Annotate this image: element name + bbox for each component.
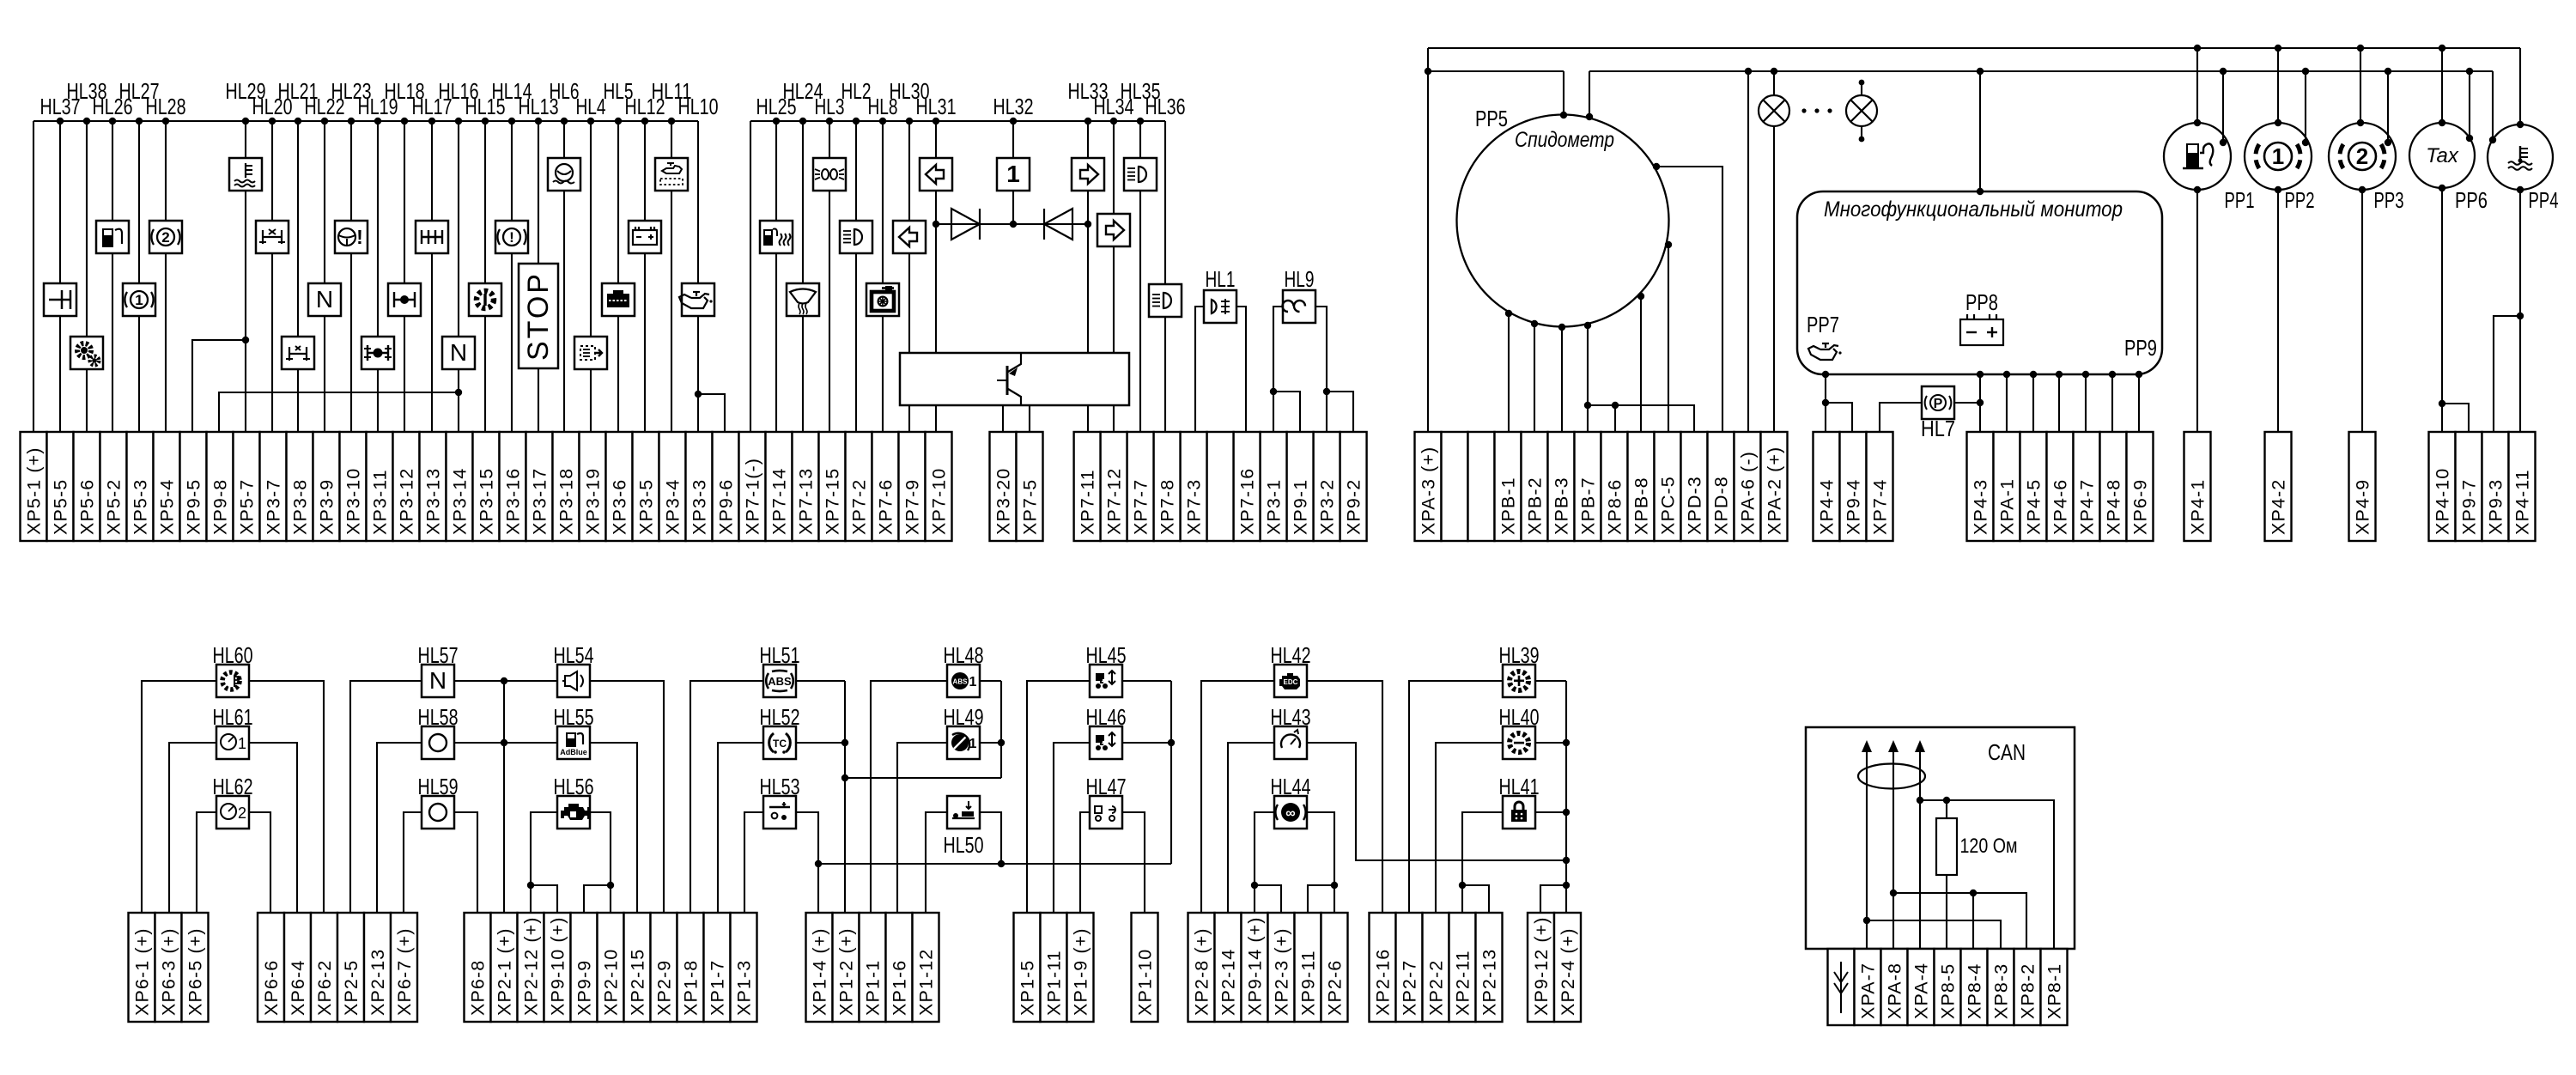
wire: lower bus corner to PP4 (2492, 71, 2494, 140)
indicator lamp HL28 wire (165, 121, 167, 221)
svg-text:XP4-10: XP4-10 (2433, 468, 2453, 535)
wire: upper bus corner to PP4 (2519, 48, 2521, 125)
svg-text:XP9-11: XP9-11 (1298, 950, 1319, 1016)
pin blank box (1207, 432, 1234, 541)
indicator lamp HL30 (turn left) (893, 221, 926, 253)
svg-text:HL53: HL53 (760, 774, 800, 799)
wire: HL54 right lead (590, 681, 664, 913)
wire: HL42 left lead (1201, 681, 1274, 913)
pin XPA-1 box (1994, 432, 2020, 541)
pin XP7-5 box (1017, 432, 1043, 541)
wire: HL45 right lead (1122, 680, 1171, 682)
indicator lamp HL16 wire (458, 121, 459, 337)
pin XP2-11 box (1449, 913, 1476, 1022)
indicator lamp HL36 (low beam) (1149, 284, 1182, 317)
svg-text:XP2-7: XP2-7 (1400, 960, 1420, 1016)
pin XP2-8 (+) box (1188, 913, 1215, 1022)
svg-text:XP3-2: XP3-2 (1317, 479, 1338, 535)
indicator lamp HL33 (turn right) (1072, 158, 1104, 191)
pin XP7-15 box (819, 432, 846, 541)
svg-text:XP3-10: XP3-10 (343, 468, 364, 535)
wire: HL59 left lead (404, 812, 422, 913)
junction on bus at HL12 (641, 118, 648, 125)
indicator lamp HL24 wire (802, 121, 804, 283)
indicator lamp HL55 (557, 726, 590, 759)
wire: HL43 right lead to HL39 rail (1307, 743, 1566, 860)
svg-text:HL54: HL54 (554, 642, 594, 668)
indicator lamp HL36 wire (1164, 121, 1166, 284)
wire: HL51 right lead (796, 680, 845, 682)
junction on bus at HL2 (853, 118, 860, 125)
wire: HL9 right branch to XP9-2 (1327, 392, 1353, 432)
pin XP2-13 box (1476, 913, 1503, 1022)
wire: HL41 right lead (1535, 811, 1566, 813)
pin XP4-4 box (1814, 432, 1840, 541)
svg-text:1: 1 (238, 735, 246, 752)
indicator lamp HL27 (123, 283, 155, 316)
junction on XPB-7 wire (1584, 402, 1591, 409)
svg-text:XP2-15: XP2-15 (628, 949, 648, 1016)
wire: monitor to XP4-6 (2058, 374, 2060, 432)
junction HL53 on common plus rail (815, 860, 822, 867)
svg-text:XP9-2: XP9-2 (1344, 479, 1364, 535)
junction on bus at HL16 (455, 118, 462, 125)
svg-text:HL32: HL32 (993, 94, 1034, 119)
svg-text:HL49: HL49 (944, 704, 984, 730)
svg-text:ABS: ABS (953, 678, 969, 686)
svg-text:PP5: PP5 (1475, 106, 1508, 131)
svg-text:XP1-9 (+): XP1-9 (+) (1071, 927, 1091, 1016)
junction on lower bus at lamp EL1 (1771, 68, 1777, 75)
pin XPA-4 box (1908, 949, 1935, 1025)
junction on bus at HL33 (1084, 118, 1091, 125)
wire: upper bus to PP1 (2196, 48, 2198, 123)
pin XP3-8 box (287, 432, 313, 541)
svg-text:AdBlue: AdBlue (560, 748, 587, 756)
wire: HL9 right to XP3-2 (1315, 307, 1327, 432)
pin XP7-6 box (872, 432, 899, 541)
pin XP4-5 box (2020, 432, 2047, 541)
svg-text:XP7-9: XP7-9 (902, 479, 923, 535)
wire: to pin XPA-6 (-) (1747, 71, 1749, 432)
junction HL50 on plus rail (998, 860, 1005, 867)
pin XP8-4 box (1961, 949, 1988, 1025)
junction CAN high (1917, 797, 1923, 804)
pin XP3-13 box (420, 432, 447, 541)
pin XP3-6 box (606, 432, 633, 541)
pin XP9-2 box (1340, 432, 1367, 541)
indicator lamp HL40 (1503, 726, 1535, 759)
pin XP1-2 (+) box (833, 913, 860, 1022)
svg-text:XP7-5: XP7-5 (1020, 479, 1041, 535)
svg-text:HL41: HL41 (1499, 774, 1540, 799)
pin XP9-14 (+) box (1242, 913, 1268, 1022)
wire: HL53 right lead to XP1-4 (+) (796, 812, 818, 913)
wire: flasher output to XP7-5 (1029, 405, 1030, 432)
junction upper bus at PP2 (2275, 45, 2281, 52)
pin XP3-1 box (1261, 432, 1287, 541)
wire: HL57 left lead (350, 681, 422, 913)
gauge PP1 circle (2164, 123, 2231, 190)
wire: HL9 left branch to XP9-1 (1273, 392, 1300, 432)
svg-text:XP1-5: XP1-5 (1018, 960, 1038, 1016)
wire: upper supply bus (right block) (1428, 47, 2520, 49)
junction on bus at HL19 (374, 118, 381, 125)
pin XP6-4 box (284, 913, 311, 1022)
svg-text:XP6-6: XP6-6 (261, 960, 282, 1016)
svg-text:HL10: HL10 (678, 94, 719, 119)
wire: branch to XP2-3 (+) (1255, 885, 1281, 913)
indicator lamp HL14 (495, 221, 528, 253)
svg-text:XP5-5: XP5-5 (51, 479, 71, 535)
svg-text:STOP: STOP (522, 271, 555, 361)
svg-text:HL60: HL60 (213, 642, 253, 668)
svg-text:XP8-2: XP8-2 (2018, 963, 2038, 1019)
svg-text:XPB-2: XPB-2 (1525, 477, 1546, 535)
wire: PP1 to XP4-1 (2196, 190, 2198, 432)
junction HL56 right branch (607, 882, 614, 889)
pin XP7-12 box (1101, 432, 1127, 541)
svg-text:1: 1 (135, 292, 143, 308)
svg-text:HL4: HL4 (576, 94, 606, 119)
junction on bus at HL31 (933, 118, 939, 125)
svg-text:1: 1 (969, 675, 977, 689)
indicator lamp HL33 wire (1087, 121, 1089, 158)
wire: HL62 left lead (197, 812, 216, 913)
wire: lower bus to PP2 (2305, 71, 2306, 143)
pin XP3-4 box (659, 432, 686, 541)
indicator lamp HL22 wire (324, 121, 325, 283)
wire: HL62 right lead (249, 812, 270, 913)
wire: XP7-4 riser to lamp HL7 (1880, 403, 1922, 432)
indicator lamp HL13 wire (538, 121, 539, 264)
svg-text:XP6-3 (+): XP6-3 (+) (159, 927, 179, 1016)
pin XP3-11 box (367, 432, 393, 541)
indicator lamp HL11 (655, 158, 688, 191)
pin XPB-3 box (1548, 432, 1575, 541)
svg-text:PP1: PP1 (2225, 187, 2255, 213)
svg-text:XP8-3: XP8-3 (1991, 963, 2012, 1019)
pin XP6-2 box (311, 913, 337, 1022)
svg-text:XP4-11: XP4-11 (2512, 469, 2533, 535)
svg-text:HL56: HL56 (554, 774, 594, 799)
wire: HL42 right lead (1307, 681, 1382, 913)
pin XP8-1 box (2041, 949, 2068, 1025)
svg-text:!: ! (356, 226, 363, 248)
svg-text:XPA-2 (+): XPA-2 (+) (1765, 446, 1785, 535)
indicator lamp HL4 (574, 337, 607, 369)
indicator lamp HL1 (rear fog) (1204, 290, 1236, 323)
junction on bus at HL17 (428, 118, 435, 125)
indicator lamp HL18 (388, 283, 421, 316)
svg-text:HL51: HL51 (760, 642, 800, 668)
svg-text:HL61: HL61 (213, 704, 253, 730)
svg-text:XP6-2: XP6-2 (314, 960, 335, 1016)
wire: speedometer to XPD-8 (1656, 167, 1722, 432)
svg-text:XP2-12 (+): XP2-12 (+) (521, 916, 542, 1016)
svg-text:XPA-3 (+): XPA-3 (+) (1419, 446, 1439, 535)
wire: HL44 left lead to XP9-14 (1255, 812, 1274, 913)
svg-text:HL1: HL1 (1206, 266, 1236, 292)
wire: HL50 left lead to XP1-12 (926, 812, 947, 913)
indicator lamp HL6 (548, 158, 580, 191)
wire: monitor to XPA-1 (2006, 374, 2008, 432)
indicator lamp HL11 wire (671, 121, 672, 158)
junction diode row right (1084, 221, 1091, 228)
svg-text:HL52: HL52 (760, 704, 800, 730)
svg-text:XP1-2 (+): XP1-2 (+) (836, 927, 857, 1016)
gauge PP4 circle (2488, 125, 2553, 190)
indicator lamp HL10 (682, 283, 714, 316)
wire: bus drop to pin XP7-1(-) (750, 121, 751, 432)
wire: upper bus to PP3 (2360, 48, 2361, 123)
pin XP5-4 box (154, 432, 180, 541)
indicator lamp HL28 (149, 221, 182, 253)
wire: HL46 right lead (1122, 742, 1171, 744)
junction diode row centre (1010, 221, 1017, 228)
twisted pair ellipse (1858, 764, 1925, 789)
pin XP1-1 box (860, 913, 886, 1022)
pin XP3-20 box (990, 432, 1017, 541)
svg-text:XP3-11: XP3-11 (370, 469, 391, 535)
speedometer PP5 circle (1457, 115, 1669, 327)
svg-text:XP2-13: XP2-13 (368, 949, 388, 1016)
wire: speedometer to XPB-1 (1508, 313, 1510, 432)
junction HL44 right branch (1331, 882, 1338, 889)
indicator lamp HL5 (602, 283, 635, 316)
svg-text:PP3: PP3 (2374, 187, 2404, 213)
indicator lamp HL31 wire (935, 121, 937, 158)
svg-text:HL40: HL40 (1499, 704, 1540, 730)
junction on bus at HL18 (401, 118, 408, 125)
svg-text:XP6-1 (+): XP6-1 (+) (132, 927, 153, 1016)
wire: lower bus left segment (1428, 70, 1564, 72)
pin XP3-10 box (340, 432, 367, 541)
indicator lamp HL43 (1274, 726, 1307, 759)
svg-text:XP9-6: XP9-6 (716, 479, 737, 535)
junction branch to XP8-6 (1612, 402, 1619, 409)
pin XP9-8 box (207, 432, 234, 541)
wire: HL39 group rail to XP2-4 (+) (1565, 681, 1567, 913)
pin XP7-9 box (899, 432, 926, 541)
svg-text:N: N (450, 339, 467, 366)
indicator lamp HL45 (1090, 665, 1122, 697)
svg-text:XP5-3: XP5-3 (131, 479, 151, 535)
wire: HL45 left lead (1027, 681, 1090, 913)
pin XPA-8 box (1881, 949, 1908, 1025)
pin XP9-1 box (1287, 432, 1314, 541)
svg-text:XP1-12: XP1-12 (916, 949, 937, 1016)
indicator lamp HL31 (turn left) (920, 158, 952, 191)
junction lower bus start (1425, 68, 1431, 75)
pin XP9-10 (+) box (544, 913, 571, 1022)
wire: HL56 left lead to XP2-12 (531, 812, 557, 913)
junction HL44 left branch (1251, 882, 1258, 889)
indicator lamp HL8 wire (882, 121, 884, 283)
svg-text:HL31: HL31 (916, 94, 957, 119)
svg-text:HL44: HL44 (1271, 774, 1311, 799)
indicator lamp HL12 (629, 221, 661, 253)
wire: supply bus of left lamp block (33, 120, 698, 122)
wire: HL39 left lead (1409, 681, 1503, 913)
svg-text:XP5-6: XP5-6 (77, 479, 98, 535)
monitor bottom connection dots (1822, 371, 1829, 378)
pin XP7-7 box (1127, 432, 1154, 541)
wire: speedometer to XPB-2 (1534, 324, 1535, 432)
pin XP2-12 (+) box (518, 913, 544, 1022)
indicator lamp HL38 wire (86, 121, 88, 337)
wire: monitor to XP4-8 (2111, 374, 2113, 432)
pin XP2-3 (+) box (1268, 913, 1295, 1022)
svg-text:XP1-1: XP1-1 (863, 960, 884, 1016)
CAN wire XPA-8 with arrow (1893, 747, 1894, 949)
pin XP7-13 box (793, 432, 819, 541)
wire: branch to XP9-3 (2494, 316, 2520, 432)
svg-text:PP2: PP2 (2285, 187, 2315, 213)
wire: speedometer to XPB-7 (1587, 325, 1589, 432)
wire: speedometer to XPC-5 (1668, 245, 1669, 432)
indicator lamp HL37 (44, 283, 76, 316)
pin XP2-2 box (1423, 913, 1449, 1022)
CAN wire XPA-4 with arrow (1919, 747, 1921, 949)
multifunction monitor box (1797, 191, 2162, 374)
junction on bus at HL21 (295, 118, 301, 125)
svg-text:XP9-1: XP9-1 (1291, 479, 1311, 535)
indicator lamp HL47 (1090, 796, 1122, 829)
indicator lamp HL54 (557, 665, 590, 697)
junction diode row left (933, 221, 939, 228)
wire: drop to XP8-6 (1614, 405, 1616, 432)
junction lower bus at PP6 (2466, 68, 2473, 75)
indicator lamp HL32 wire (1012, 121, 1014, 158)
pin XP8-6 box (1601, 432, 1628, 541)
indicator lamp HL27 wire (138, 121, 140, 283)
indicator lamp HL46 (1090, 726, 1122, 759)
svg-text:HL2: HL2 (841, 78, 872, 104)
indicator lamp HL23 wire (350, 121, 352, 221)
wire: HL54 left lead (504, 680, 557, 682)
wire: HL59 right lead (454, 812, 477, 913)
wire: HL61 right lead (249, 743, 297, 913)
pin XP5-7 box (234, 432, 260, 541)
junction lower bus at PP2 (2302, 68, 2309, 75)
svg-text:HL13: HL13 (519, 94, 559, 119)
pin XP7-1(-) box (739, 432, 766, 541)
pin XPA-7 box (1855, 949, 1881, 1025)
svg-text:2: 2 (161, 229, 169, 246)
pin XP6-7 (+) box (391, 913, 417, 1022)
svg-text:XP7-16: XP7-16 (1237, 468, 1258, 535)
junction on bus at HL15 (482, 118, 489, 125)
wire: HL1 right to XP7-16 (1236, 307, 1246, 432)
svg-text:XP2-10: XP2-10 (601, 949, 622, 1016)
svg-text:XP2-11: XP2-11 (1453, 950, 1473, 1016)
wire: common plus rail y=1006 (818, 863, 1171, 865)
svg-text:XP3-16: XP3-16 (503, 468, 524, 535)
indicator lamp HL37 wire (59, 121, 61, 283)
pin XP4-3 box (1967, 432, 1994, 541)
svg-text:CAN: CAN (1988, 739, 2026, 765)
pin XP3-19 box (580, 432, 606, 541)
wire: PP4 to XP4-11 (2519, 190, 2521, 432)
svg-text:XP2-5: XP2-5 (341, 960, 361, 1016)
svg-text:HL7: HL7 (1921, 416, 1955, 441)
svg-text:XP1-8: XP1-8 (681, 960, 702, 1016)
indicator lamp HL10 wire (697, 121, 699, 283)
indicator lamp HL24 (787, 283, 819, 316)
indicator lamp HL42 (1274, 665, 1307, 697)
pin XP7-2 box (846, 432, 872, 541)
svg-text:XP5-2: XP5-2 (104, 479, 125, 535)
svg-text:XPD-8: XPD-8 (1711, 476, 1732, 535)
indicator lamp HL18 wire (404, 121, 405, 283)
indicator lamp HL50 (947, 796, 980, 829)
junction on lower bus at XPA-6 (1745, 68, 1752, 75)
svg-text:XP4-1: XP4-1 (2188, 479, 2208, 535)
svg-text:XP9-8: XP9-8 (210, 479, 231, 535)
pin XP8-3 box (1988, 949, 2014, 1025)
PP6 terminal dots (2439, 119, 2445, 126)
svg-text:PP9: PP9 (2124, 335, 2157, 361)
junction on bus at HL35 (1137, 118, 1144, 125)
wire: HL10 branch to pin XP9-6 (698, 394, 725, 432)
indicator lamp HL57 (422, 665, 454, 697)
svg-text:HL46: HL46 (1086, 704, 1127, 730)
indicator lamp HL21 wire (297, 121, 299, 337)
wire: link to HL48/HL49 rail (845, 777, 1001, 779)
indicator lamp HL19 (361, 337, 394, 369)
svg-text:XP6-5 (+): XP6-5 (+) (185, 927, 206, 1016)
svg-text:XP8-5: XP8-5 (1938, 963, 1959, 1019)
wire: monitor to XP6-9 (2138, 374, 2140, 432)
indicator lamp HL32 (trailer 1) (997, 158, 1030, 191)
pin XPA-3 (+) box (1415, 432, 1442, 541)
junction on bus at HL27 (136, 118, 143, 125)
svg-text:XPA-1: XPA-1 (1997, 478, 2018, 535)
junction on PP4 wire (2517, 313, 2524, 319)
wire: stub into speedometer terminal 1 (1563, 71, 1564, 115)
svg-text:XPB-8: XPB-8 (1631, 477, 1652, 535)
indicator lamp HL13 (STOP) (519, 264, 558, 368)
pin blank box (1828, 949, 1855, 1025)
junction on bus at HL24 (799, 118, 806, 125)
svg-text:120 Ом: 120 Ом (1960, 835, 2018, 858)
svg-text:XPB-7: XPB-7 (1578, 477, 1599, 535)
svg-text:XP3-8: XP3-8 (290, 479, 311, 535)
junction on bus at HL8 (879, 118, 886, 125)
svg-text:XP5-1 (+): XP5-1 (+) (24, 446, 45, 535)
pin XP8-5 box (1935, 949, 1961, 1025)
pin XPA-6 (-) box (1735, 432, 1761, 541)
svg-text:Многофункциональный монитор: Многофункциональный монитор (1824, 197, 2123, 222)
svg-text:HL42: HL42 (1271, 642, 1311, 668)
wire: CAN link to XP8-3 (1867, 920, 2001, 949)
wire: monitor to XP4-3 (1979, 374, 1981, 432)
svg-text:XP7-3: XP7-3 (1184, 479, 1205, 535)
wire: HL48 left lead to XP1-1 (871, 681, 947, 913)
indicator lamp HL61 (216, 726, 249, 759)
ellipsis dots (1801, 108, 1806, 112)
svg-text:Спидометр: Спидометр (1515, 128, 1614, 152)
indicator lamp HL17 (416, 221, 448, 253)
indicator lamp HL35 (high beam) (1124, 158, 1157, 191)
wire: branch to XP9-7 (2442, 404, 2469, 432)
svg-text:P: P (1934, 397, 1943, 411)
indicator lamp HL14 wire (511, 121, 513, 221)
svg-text:XPB-3: XPB-3 (1552, 477, 1572, 535)
svg-text:∞: ∞ (1285, 806, 1295, 821)
pin XP2-14 box (1215, 913, 1242, 1022)
